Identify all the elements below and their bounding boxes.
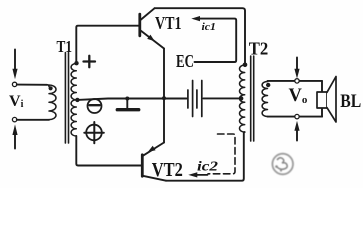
- circled plus: [86, 125, 102, 141]
- middle wire: tap to battery: [77, 99, 186, 100]
- svg-text:T1: T1: [57, 37, 73, 56]
- polarity plus sign near T1 top: [84, 56, 96, 67]
- input top terminal: [12, 82, 16, 86]
- output top arrow lead: [296, 58, 298, 70]
- svg-text:ic2: ic2: [197, 159, 218, 174]
- VT2 emitter arrowhead: [148, 146, 156, 152]
- wire T1 secondary bottom to VT2 base: [76, 136, 141, 166]
- ic1 current loop: EC wire: [195, 19, 237, 62]
- transformer T2 primary winding: [239, 65, 244, 132]
- T1 secondary phase dot: [74, 61, 78, 65]
- transformer T2 secondary winding: [262, 82, 267, 117]
- VT2 emitter: [143, 143, 164, 156]
- output top arrowhead: [294, 69, 299, 79]
- transistor VT2 base bar: [141, 155, 144, 176]
- battery plate long: [192, 81, 194, 117]
- svg-text:VT1: VT1: [155, 13, 182, 33]
- top wire VT1 collector to T2: [155, 8, 245, 62]
- ground: [126, 99, 128, 109]
- emitter junction dot: [162, 96, 166, 100]
- speaker connector stubs: [321, 81, 323, 117]
- ground junction dot: [125, 97, 129, 101]
- output bottom arrowhead: [294, 121, 299, 131]
- battery plate short: [196, 90, 198, 108]
- wire input top to T1 primary: [17, 84, 47, 86]
- output wire top: [268, 80, 323, 82]
- output bottom arrow lead: [296, 131, 298, 141]
- output terminal bottom: [295, 114, 299, 118]
- T1 core: [64, 53, 66, 144]
- battery plate long: [201, 81, 203, 117]
- T2 primary top phase dot: [243, 63, 248, 68]
- input bottom arrow lead: [14, 135, 16, 149]
- wire emitters vertical: [163, 49, 165, 143]
- ic1 arrowhead: [191, 16, 200, 21]
- speaker horn BL: [327, 77, 336, 123]
- transistor VT1 base bar: [138, 14, 141, 36]
- svg-text:Vo: Vo: [289, 86, 308, 106]
- VT2 collector: [143, 176, 166, 181]
- input top arrow lead: [14, 50, 16, 70]
- battery EC plate short: [187, 90, 189, 108]
- speaker voice-coil box: [317, 92, 327, 108]
- wire battery to T2 center tap: [203, 97, 241, 99]
- output terminal top: [295, 79, 299, 83]
- output wire bottom: [268, 116, 323, 118]
- transformer T1 secondary winding: [71, 64, 76, 137]
- T2 center tap dot: [239, 96, 243, 100]
- circled minus: [88, 99, 102, 113]
- bottom wire VT2 collector to T2: [166, 132, 245, 181]
- svg-text:EC: EC: [176, 51, 194, 71]
- input bottom terminal: [12, 117, 16, 121]
- wire T1 secondary top to VT1 base: [76, 26, 138, 63]
- T2 core: [250, 56, 252, 141]
- wire input bottom to T1 primary: [17, 119, 49, 121]
- T1 primary phase dot: [49, 86, 53, 90]
- VT1 emitter arrowhead: [147, 35, 155, 42]
- svg-text:VT2: VT2: [152, 160, 183, 181]
- svg-text:ic1: ic1: [202, 21, 217, 33]
- ic2 arrow tail: [196, 174, 208, 176]
- VT1 emitter: [141, 31, 164, 49]
- input bottom arrowhead: [12, 124, 17, 135]
- svg-text:T2: T2: [249, 38, 268, 58]
- VT1 collector: [141, 8, 155, 19]
- svg-text:BL: BL: [340, 91, 361, 112]
- svg-text:Vi: Vi: [9, 93, 24, 110]
- T2 secondary phase dot: [266, 83, 270, 87]
- input top arrowhead: [12, 69, 17, 80]
- transformer T1 primary winding: [47, 85, 56, 120]
- ic2 arrowhead: [188, 172, 197, 177]
- T1 center tap dot: [75, 98, 79, 102]
- ic2 dashed current loop: [208, 134, 235, 174]
